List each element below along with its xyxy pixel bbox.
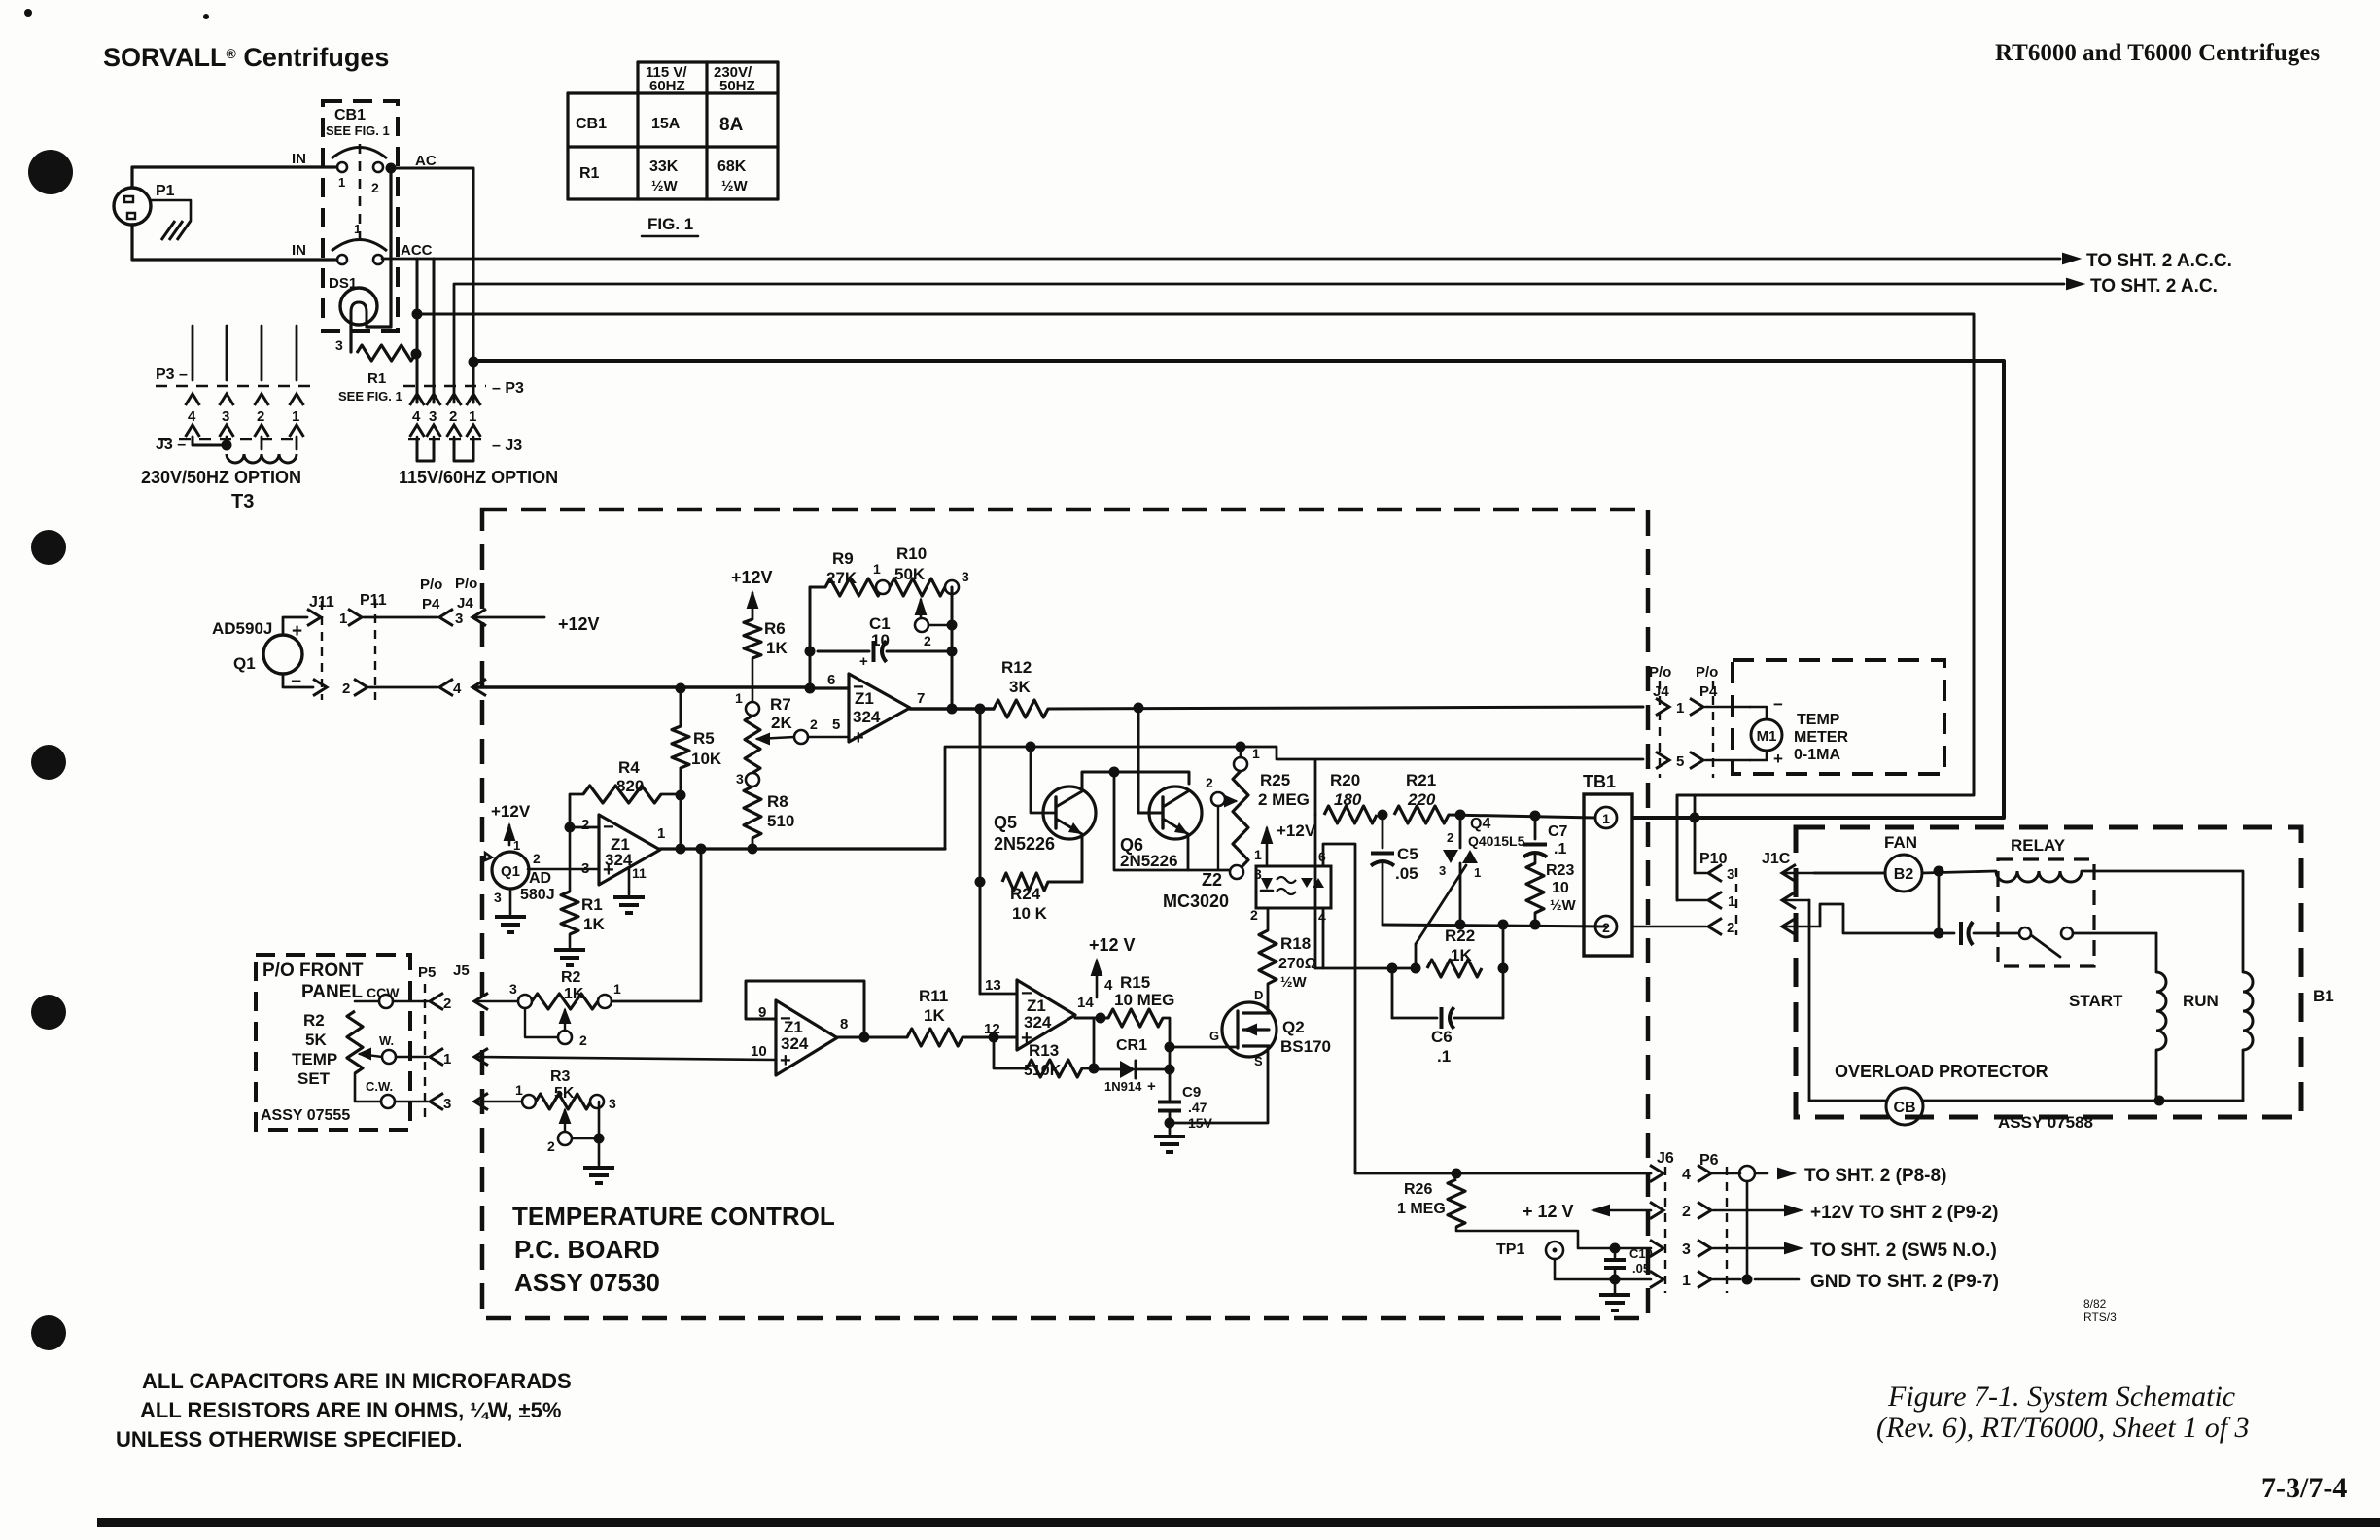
node wire3 start: [412, 309, 423, 320]
node pin2 junction: [565, 822, 576, 833]
relay coil: [1996, 871, 2082, 882]
svg-text:R9: R9: [832, 549, 854, 568]
wire pin2 jog: [1820, 904, 1939, 933]
svg-text:6: 6: [827, 672, 835, 688]
node C1 left: [805, 647, 816, 657]
svg-text:−: −: [291, 672, 301, 692]
test point TP1: [1546, 1242, 1563, 1259]
capacitor C5: [1382, 815, 1384, 848]
wire meter line down to R20: [1314, 760, 1317, 815]
svg-text:2: 2: [1682, 1204, 1691, 1220]
node opamp C out: [859, 1032, 870, 1043]
wire R2-1 up to summing node: [612, 849, 701, 1001]
resistor R23: [1526, 863, 1544, 913]
J5 pin3 row: [395, 1101, 428, 1103]
R3 wiper: [560, 1110, 570, 1123]
svg-text:.1: .1: [1554, 841, 1566, 857]
wire AC to vertical: [391, 168, 473, 402]
node opamp B out at R5: [676, 844, 686, 855]
svg-text:CB1: CB1: [576, 116, 607, 132]
+12V arrow J6: [1593, 1206, 1609, 1215]
pot R10 terminal1: [876, 580, 890, 594]
svg-text:2: 2: [1206, 775, 1213, 790]
svg-text:2: 2: [342, 681, 350, 697]
wire opamp A out: [910, 707, 980, 710]
wire ACC long to SHT2 ACC: [382, 258, 2060, 261]
svg-text:2K: 2K: [771, 714, 792, 732]
pot R3 terminal2: [558, 1132, 572, 1145]
resistor R13: [1027, 1060, 1082, 1077]
svg-text:Q2: Q2: [1282, 1018, 1305, 1036]
svg-text:1K: 1K: [564, 986, 584, 1002]
svg-text:4: 4: [188, 408, 196, 425]
R2 1K wiper: [560, 1010, 570, 1023]
svg-text:½W: ½W: [651, 178, 679, 194]
J3 jumper 2-1: [454, 439, 473, 461]
svg-text:+: +: [853, 727, 864, 749]
svg-text:2: 2: [257, 408, 264, 425]
svg-text:180: 180: [1334, 790, 1362, 809]
node R22 right top: [1498, 920, 1509, 930]
+12V arrow AD580: [505, 825, 514, 840]
table FIG1 frame: [638, 60, 778, 63]
wire3 to relay box: [416, 259, 419, 402]
svg-text:4: 4: [1104, 977, 1113, 994]
svg-text:TO SHT. 2 A.C.: TO SHT. 2 A.C.: [2090, 276, 2218, 297]
svg-text:P/o: P/o: [455, 576, 477, 592]
wire relay coil right: [2082, 871, 2243, 972]
svg-text:33K: 33K: [649, 158, 679, 175]
svg-text:1 MEG: 1 MEG: [1397, 1201, 1446, 1217]
resistor R3 5K (pot): [536, 1094, 591, 1109]
svg-text:5K: 5K: [305, 1031, 327, 1049]
svg-text:1K: 1K: [924, 1006, 945, 1025]
svg-text:+12V: +12V: [731, 568, 773, 587]
svg-text:R7: R7: [770, 695, 791, 714]
wire R1p vertical: [569, 827, 572, 892]
node R24 left: [975, 877, 986, 888]
wire pin13 from Q5 node: [980, 993, 1017, 996]
T3 J3 pin 1 arrow: [290, 425, 304, 437]
svg-text:+: +: [859, 653, 868, 670]
wire R24 to Q5 emitter: [1048, 881, 1082, 884]
capacitor relay contact: [1939, 932, 1954, 935]
winding RUN: [2243, 972, 2253, 1050]
capacitor C7: [1534, 816, 1537, 839]
wire collector down to emitter line: [1114, 772, 1231, 870]
J6 pin2 row: [1650, 1202, 1663, 1218]
opamp C feedback loop: [746, 981, 864, 1037]
wire to J6-4: [1355, 1172, 1651, 1175]
node CR1 junction: [1165, 1065, 1175, 1075]
svg-text:J3 –: J3 –: [156, 437, 186, 453]
node R21 right: [1455, 810, 1466, 821]
svg-text:Z2: Z2: [1202, 870, 1222, 890]
svg-text:3: 3: [962, 569, 969, 584]
svg-text:.05: .05: [1632, 1261, 1650, 1276]
P4 dashed meter: [1712, 681, 1714, 778]
svg-text:S: S: [1254, 1054, 1263, 1068]
arrow to SHT2 AC: [2067, 279, 2082, 289]
svg-text:P3 –: P3 –: [156, 367, 188, 383]
svg-text:2: 2: [449, 408, 457, 425]
svg-text:CB1: CB1: [334, 107, 366, 123]
Q2 drain wire: [1267, 1003, 1270, 1013]
TB1 terminal 2: [1595, 916, 1617, 937]
P6 tie vertical: [1746, 1181, 1749, 1279]
R10 wiper: [916, 600, 926, 614]
svg-text:B1: B1: [2313, 987, 2334, 1005]
svg-text:TB1: TB1: [1583, 772, 1616, 791]
pot R10 terminal3: [945, 580, 959, 594]
svg-text:230V/50HZ OPTION: 230V/50HZ OPTION: [141, 468, 301, 487]
resistor R21: [1394, 806, 1449, 823]
svg-text:R23: R23: [1546, 862, 1574, 879]
wire R4 left: [570, 794, 583, 827]
svg-text:– P3: – P3: [492, 380, 524, 397]
svg-text:2: 2: [581, 817, 589, 833]
punch hole top-left: [28, 150, 73, 194]
P6 tie circle: [1739, 1166, 1755, 1181]
node Q6 branch: [1134, 703, 1144, 714]
svg-text:½W: ½W: [721, 178, 749, 194]
pin2 row: [1632, 926, 1706, 928]
T3 P3 pin 1 lead: [296, 326, 298, 380]
+12V arrow opamp D: [1092, 961, 1102, 975]
svg-text:Z1: Z1: [855, 689, 874, 708]
svg-text:FIG. 1: FIG. 1: [647, 215, 693, 233]
node C10 top: [1610, 1243, 1621, 1254]
svg-text:1K: 1K: [583, 915, 605, 933]
meter M1: [1751, 719, 1782, 751]
P3 pin 4 arrow: [410, 394, 425, 405]
svg-text:50HZ: 50HZ: [719, 78, 755, 94]
svg-text:2: 2: [810, 717, 818, 732]
svg-text:R15: R15: [1120, 973, 1150, 992]
node R25 meter line: [1236, 742, 1246, 752]
svg-text:1: 1: [1252, 746, 1260, 761]
resistor R7 (pot): [745, 716, 760, 773]
wire R7 wiper to opamp A pin5: [808, 736, 849, 739]
svg-text:RUN: RUN: [2183, 992, 2219, 1010]
svg-text:−: −: [1773, 695, 1783, 714]
svg-text:½W: ½W: [1280, 974, 1308, 991]
svg-text:M1: M1: [1757, 728, 1777, 745]
R7 wiper: [757, 734, 769, 744]
svg-text:1: 1: [292, 408, 299, 425]
J5 pin1 row: [396, 1056, 428, 1059]
wire pin2: [570, 826, 599, 829]
resistor R20: [1324, 806, 1377, 823]
svg-text:C10: C10: [1629, 1246, 1653, 1261]
node opamp A pin6 wire: [805, 683, 816, 694]
svg-text:Q1: Q1: [501, 863, 520, 880]
CB1 lower contacts: [337, 255, 347, 264]
svg-text:PANEL: PANEL: [301, 982, 363, 1002]
svg-text:1: 1: [873, 561, 881, 577]
J6 pin3 row: [1650, 1240, 1663, 1256]
wire plug to CB1 IN lower: [132, 225, 335, 260]
svg-text:3: 3: [494, 890, 502, 905]
node C1 right: [947, 647, 958, 657]
wire gate to Q2: [1170, 1046, 1236, 1049]
R2 1K wiper tie: [525, 1008, 558, 1037]
node wire4 start: [469, 357, 479, 367]
relay dashed box: [1998, 859, 2094, 966]
svg-text:R10: R10: [896, 544, 927, 563]
J6 pin4 row: [1650, 1165, 1663, 1181]
wire C10 to J6-1: [1615, 1278, 1651, 1281]
svg-text:AC: AC: [415, 153, 437, 169]
svg-text:+: +: [292, 621, 302, 642]
transistor Q5 2N5226: [1043, 787, 1096, 839]
svg-text:+: +: [780, 1050, 791, 1071]
pot R2 1K terminal1: [598, 995, 612, 1008]
svg-text:7-3/7-4: 7-3/7-4: [2261, 1472, 2347, 1504]
node R2 summing: [696, 844, 707, 855]
Q4 gate line: [1416, 865, 1466, 944]
svg-text:2N5226: 2N5226: [1120, 852, 1178, 870]
svg-text:1: 1: [1602, 811, 1610, 826]
svg-text:R6: R6: [764, 619, 786, 638]
wire R6 to R7: [752, 658, 754, 702]
capacitor C9: [1158, 1101, 1181, 1104]
resistor R1 (line): [357, 345, 416, 361]
wire Q5 collector: [1082, 772, 1189, 788]
ground C10: [1614, 1279, 1617, 1293]
svg-text:J1C: J1C: [1762, 851, 1791, 867]
wire opamp B out: [660, 847, 945, 850]
svg-text:RELAY: RELAY: [2011, 836, 2066, 855]
svg-text:R12: R12: [1001, 658, 1032, 677]
node opamp A out: [947, 704, 958, 715]
wire R13 to out: [1082, 1067, 1094, 1070]
svg-text:1: 1: [354, 222, 361, 236]
wire R10 wiper tie: [928, 624, 952, 627]
svg-text:SEE FIG. 1: SEE FIG. 1: [326, 123, 390, 138]
svg-text:+: +: [1147, 1078, 1156, 1095]
svg-text:1K: 1K: [1451, 946, 1472, 964]
resistor R25 (pot): [1233, 771, 1248, 868]
pot R2 1K terminal2: [558, 1031, 572, 1044]
P10 dashed: [1735, 868, 1737, 935]
svg-text:TEMPERATURE CONTROL: TEMPERATURE CONTROL: [512, 1202, 835, 1231]
svg-text:.47: .47: [1188, 1100, 1207, 1115]
node contact line: [1934, 928, 1944, 939]
svg-text:P11: P11: [360, 592, 387, 609]
svg-text:2: 2: [924, 633, 931, 648]
svg-text:R2: R2: [303, 1011, 325, 1030]
arrow to SHT2 ACC: [2063, 254, 2079, 263]
resistor R9: [825, 578, 883, 596]
node TB1 feed: [1530, 811, 1541, 822]
svg-text:TO SHT. 2 (P8-8): TO SHT. 2 (P8-8): [1804, 1166, 1946, 1186]
T3 P3 pin 3 lead: [226, 326, 228, 380]
T3 P3 pin 4 lead: [192, 326, 194, 380]
svg-text:+12V TO SHT 2 (P9-2): +12V TO SHT 2 (P9-2): [1810, 1203, 1998, 1223]
svg-text:+12V: +12V: [1277, 822, 1316, 840]
temperature control PCB box: [482, 509, 1648, 1318]
svg-text:1: 1: [735, 690, 743, 706]
svg-text:R4: R4: [618, 758, 640, 777]
svg-text:+ 12 V: + 12 V: [1522, 1202, 1574, 1221]
svg-text:RT6000 and T6000 Centrifuges: RT6000 and T6000 Centrifuges: [1995, 40, 2320, 66]
node R22 left: [1387, 963, 1398, 974]
node R13 right: [1089, 1064, 1100, 1074]
wire4 long: [473, 361, 2004, 818]
svg-text:10 MEG: 10 MEG: [1114, 991, 1174, 1009]
wire plug to CB1 IN upper: [132, 167, 335, 188]
svg-text:OVERLOAD PROTECTOR: OVERLOAD PROTECTOR: [1835, 1062, 2048, 1081]
svg-text:P.C. BOARD: P.C. BOARD: [514, 1235, 660, 1264]
resistor R22: [1427, 960, 1482, 977]
svg-text:C5: C5: [1397, 845, 1418, 863]
node gate stub: [1411, 963, 1421, 974]
J5 pin2 row: [393, 1000, 428, 1003]
svg-text:Figure 7-1. System Schematic: Figure 7-1. System Schematic: [1887, 1381, 2235, 1413]
fan motor B2: [1885, 855, 1922, 892]
punch hole 3: [31, 745, 66, 780]
resistor R18: [1259, 930, 1277, 984]
svg-text:Q1: Q1: [233, 654, 256, 673]
punch hole 2: [31, 530, 66, 565]
svg-text:P/o: P/o: [1649, 664, 1671, 681]
svg-text:14: 14: [1077, 995, 1094, 1011]
wire R3-3 to ground: [598, 1102, 601, 1138]
T3 P3 pin 4 arrow: [186, 394, 200, 405]
pot R10 terminal2: [915, 618, 928, 632]
T3 J3 pin 3 arrow: [220, 425, 234, 437]
svg-text:½W: ½W: [1550, 897, 1577, 914]
punch hole 4: [31, 995, 66, 1030]
op-amp U1c: [776, 1000, 837, 1075]
svg-text:7: 7: [917, 690, 925, 707]
line TB1-2 bus: [1382, 925, 1606, 927]
+12V arrow above R6: [748, 593, 757, 608]
svg-text:8/82: 8/82: [2083, 1297, 2107, 1311]
meter connector pin5: [1656, 752, 1669, 768]
opamp B pin11 ground: [628, 867, 631, 894]
wire opamp D out: [1075, 1017, 1108, 1020]
wire Z2 pin6 to J6-4: [1323, 844, 1355, 1173]
P3 pin 1 arrow: [467, 394, 481, 405]
svg-text:SET: SET: [297, 1069, 331, 1088]
P3 dashed line left: [156, 385, 311, 388]
svg-text:R26: R26: [1404, 1181, 1432, 1198]
J3 pin 4 arrow right: [410, 425, 425, 437]
wire opamp C out: [837, 1036, 907, 1039]
svg-text:AD: AD: [529, 870, 551, 887]
front panel box: [256, 955, 410, 1130]
meter wires: [1750, 707, 1767, 719]
node P6 pin1: [1742, 1275, 1753, 1285]
T3 pin leads to coil: [226, 437, 228, 445]
wire Z2 pin2 to R18: [1267, 908, 1270, 930]
transistor Q2 BS170: [1222, 1002, 1277, 1057]
wire R8 to output line: [752, 838, 754, 849]
svg-text:GND TO SHT. 2 (P9-7): GND TO SHT. 2 (P9-7): [1810, 1272, 1999, 1292]
pot R7 terminal 2: [794, 730, 808, 744]
svg-text:R22: R22: [1445, 927, 1475, 945]
Z2 LED: [1261, 878, 1273, 890]
wire Q1- to J4-4: [283, 674, 313, 687]
node R4 right: [676, 790, 686, 801]
op-amp U1a: [849, 674, 910, 742]
svg-text:820: 820: [616, 777, 644, 795]
svg-text:2: 2: [547, 1138, 555, 1154]
svg-text:SEE FIG. 1: SEE FIG. 1: [338, 389, 402, 403]
resistor R24: [1002, 873, 1048, 891]
svg-text:3: 3: [1682, 1242, 1691, 1258]
svg-text:2 MEG: 2 MEG: [1258, 790, 1310, 809]
resistor R10 (pot): [890, 578, 945, 596]
resistor R4: [583, 786, 661, 803]
svg-text:J5: J5: [453, 962, 470, 979]
wire C9 bottom: [1169, 1110, 1172, 1123]
J3 dashed line left: [158, 438, 301, 441]
R25 wiper: [1225, 796, 1236, 806]
bottom scan bar: [97, 1518, 2380, 1527]
node B2 right: [1934, 866, 1944, 877]
svg-text:R25: R25: [1260, 771, 1290, 789]
svg-text:P4: P4: [422, 596, 440, 612]
wire R25-1 to meter line: [1240, 747, 1242, 757]
wire B2 left: [1814, 872, 1885, 875]
wire Q5 base: [1031, 747, 1056, 813]
svg-text:10 K: 10 K: [1012, 904, 1048, 923]
capacitor C10: [1614, 1248, 1617, 1257]
svg-text:15A: 15A: [651, 116, 681, 132]
winding START: [2156, 972, 2166, 1050]
P5 dashed: [424, 984, 426, 1118]
wire R18 to Q2 drain: [1267, 984, 1270, 1003]
wire Z2 pin4 to R22 line: [1322, 908, 1325, 968]
svg-text:27K: 27K: [826, 569, 857, 587]
resistor R1 1K: [561, 892, 578, 934]
wire R24 chain vertical: [979, 709, 982, 882]
optocoupler Z2 MC3020: [1256, 866, 1331, 908]
capacitor C1: [818, 650, 869, 653]
svg-text:TO SHT. 2 (SW5 N.O.): TO SHT. 2 (SW5 N.O.): [1810, 1241, 1997, 1261]
sensor Q1 AD590J: [263, 635, 302, 674]
svg-text:T3: T3: [231, 491, 254, 512]
wire R13 from pin12: [994, 1037, 1027, 1068]
svg-text:P10: P10: [1699, 851, 1728, 867]
pot R2 panel: [347, 1011, 363, 1073]
punch hole 5: [31, 1315, 66, 1350]
svg-text:RTS/3: RTS/3: [2083, 1311, 2117, 1324]
T3 P3 pin 2 arrow: [255, 394, 269, 405]
svg-text:R3: R3: [550, 1068, 571, 1085]
svg-text:P6: P6: [1699, 1152, 1719, 1169]
wire R24 node to pin13: [979, 882, 982, 994]
node R22 right: [1498, 963, 1509, 974]
svg-text:0-1MA: 0-1MA: [1794, 747, 1840, 763]
svg-text:5: 5: [1676, 753, 1684, 770]
TB1 terminal 1: [1595, 807, 1617, 828]
node T3: [222, 440, 232, 451]
svg-text:10: 10: [871, 631, 890, 649]
svg-text:3K: 3K: [1009, 678, 1031, 696]
J3 pin 3 arrow right: [427, 425, 441, 437]
triac Q4: [1459, 815, 1462, 848]
J3 pin 1 arrow right: [467, 425, 481, 437]
svg-text:510: 510: [767, 812, 794, 830]
svg-text:+: +: [1773, 750, 1783, 768]
svg-text:1: 1: [469, 408, 476, 425]
CB1 link dashed: [359, 144, 362, 243]
node C9 ground: [1165, 1118, 1175, 1129]
